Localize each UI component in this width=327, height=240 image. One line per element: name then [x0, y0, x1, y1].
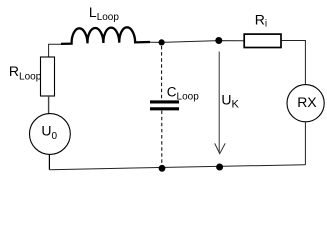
svg-text:RX: RX: [297, 94, 317, 110]
